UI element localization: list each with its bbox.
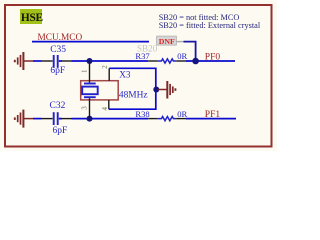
wire C35 to R37 <box>59 60 149 62</box>
capacitor C32 <box>50 101 68 136</box>
node junction PF0 <box>192 58 199 65</box>
svg-text:HSE: HSE <box>21 12 44 24</box>
svg-text:0R: 0R <box>177 51 187 61</box>
svg-text:2: 2 <box>101 65 109 69</box>
DNF flag box <box>157 36 177 46</box>
svg-text:0R: 0R <box>177 109 187 119</box>
crystal symbol plates and body <box>82 84 98 98</box>
svg-text:C35: C35 <box>50 45 66 55</box>
wire ground to C32 <box>33 118 42 120</box>
wire MCU.MCO horizontal <box>32 41 149 43</box>
svg-text:4: 4 <box>101 106 109 110</box>
svg-text:R37: R37 <box>135 51 150 61</box>
ground (bottom left) <box>15 110 33 128</box>
node junction at crystal pin 3 <box>87 116 93 122</box>
wire gray stub right of SB20 <box>176 41 184 43</box>
capacitor C35 <box>50 45 66 76</box>
ground (top left) <box>15 52 33 70</box>
pin 3 wire <box>89 98 91 118</box>
svg-text:DNF: DNF <box>159 37 175 46</box>
wire ground to C35 <box>33 60 42 62</box>
pin 1 wire <box>89 61 91 83</box>
pin wire (left of R37) <box>148 60 157 62</box>
pin wire (left of C32) <box>42 118 53 120</box>
svg-text:X3: X3 <box>119 69 131 79</box>
node junction mid ground <box>153 87 159 93</box>
pin wire (right of C32) <box>62 118 72 120</box>
resistor R38 zigzag <box>157 117 176 121</box>
pin 2 wire <box>108 68 110 81</box>
pin 4 wire <box>108 100 110 109</box>
svg-text:1: 1 <box>80 69 88 73</box>
svg-text:6pF: 6pF <box>50 66 65 76</box>
resistor R37 zigzag <box>157 59 176 63</box>
svg-text:C32: C32 <box>50 101 66 111</box>
pin wire (left of C35) <box>42 60 53 62</box>
node junction at crystal pin 1 <box>87 58 93 64</box>
svg-text:48MHz: 48MHz <box>119 91 148 101</box>
pin wire (right of R37) <box>176 60 186 62</box>
wire from SB20 down to PF0 node <box>184 42 196 60</box>
HSE section label <box>20 9 43 24</box>
pin wire (right of C35) <box>62 60 72 62</box>
crystal X3 outline box <box>81 81 119 100</box>
svg-text:6pF: 6pF <box>53 126 68 136</box>
ground (middle right) <box>158 81 175 99</box>
svg-text:PF0: PF0 <box>205 53 221 63</box>
svg-text:3: 3 <box>81 106 89 110</box>
svg-text:R38: R38 <box>135 109 149 119</box>
wire crystal case pins to ground <box>109 68 156 109</box>
wire R37 to PF0 <box>186 60 235 62</box>
note text SB20 options <box>159 13 261 30</box>
wire R38 to PF1 <box>186 118 236 120</box>
pin wire (right of R38) <box>176 118 186 120</box>
svg-text:SB20 = fitted: External crysta: SB20 = fitted: External crystal <box>159 21 261 30</box>
svg-text:PF1: PF1 <box>205 110 221 120</box>
wire C32 to R38 <box>59 118 149 120</box>
pin wire (left of R38) <box>148 118 157 120</box>
